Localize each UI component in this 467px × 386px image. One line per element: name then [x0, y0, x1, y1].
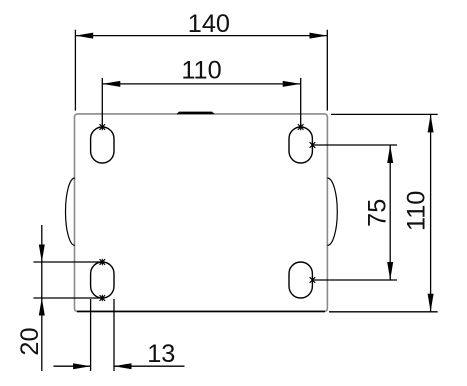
star marker bottom-left hole top: [100, 259, 106, 265]
dimension 110 top arrow right: [283, 81, 301, 87]
star marker top-right hole top: [298, 124, 304, 130]
dimension 13 arrow left (outside, pointing right): [73, 363, 91, 369]
dimension 110 top extension line left: [101, 78, 103, 127]
dimension 140 arrow left: [75, 33, 93, 39]
dimension 110 top line: [102, 83, 300, 85]
slot hole bottom-left: [91, 262, 114, 298]
dimension 13 line right tail: [114, 365, 185, 367]
dimension 20 arrow top (outside, pointing down): [39, 245, 45, 263]
dimension 13 extension line right: [113, 299, 115, 371]
svg-text:110: 110: [402, 191, 430, 231]
dimension 110 top arrow left: [102, 81, 120, 87]
dimension 13 arrow right (outside, pointing left): [114, 363, 132, 369]
star marker top-left hole: [100, 124, 106, 130]
star marker top-right hole side: [310, 142, 316, 148]
dimension 110 right extension line bottom: [329, 311, 438, 313]
dimension 13 line left tail: [54, 365, 91, 367]
dimension 110 right arrow top: [428, 114, 434, 132]
svg-text:20: 20: [16, 327, 44, 355]
star marker bottom-left hole bottom: [100, 295, 106, 301]
dimension 75 arrow top: [387, 145, 393, 163]
slot hole top-right: [289, 127, 312, 163]
dimension 75 line: [389, 145, 391, 280]
svg-text:13: 13: [147, 340, 175, 368]
dimension 110 top extension line right: [300, 78, 302, 127]
star marker bottom-right hole side: [310, 277, 316, 283]
dimension 110 right arrow bottom: [428, 294, 434, 312]
slot hole top-left: [91, 127, 114, 163]
dimension 13 extension line left: [90, 299, 92, 371]
dimension 75 arrow bottom: [387, 262, 393, 280]
dimension 20 extension line top: [33, 261, 102, 263]
dimension 110 right line: [430, 114, 432, 311]
plate bottom edge (black): [77, 310, 325, 312]
dimension 75 extension line bottom: [314, 279, 398, 281]
svg-text:110: 110: [181, 56, 221, 84]
dimension 140 extension line right: [326, 30, 328, 111]
dimension 75 extension line top: [314, 144, 398, 146]
plate outline (top plate, grey): [75, 114, 328, 312]
dimension 140 line: [75, 35, 327, 37]
slot hole bottom-right: [289, 262, 312, 298]
dimension 20 line: [41, 225, 43, 371]
wheel arc right: [327, 178, 337, 245]
dimension 140 extension line left: [74, 30, 76, 111]
svg-text:140: 140: [188, 10, 230, 38]
dimension 110 right extension line top: [331, 113, 438, 115]
dimension 140 arrow right: [310, 33, 328, 39]
dimension 20 extension line bottom: [33, 297, 102, 299]
dimension 20 arrow bottom (outside, pointing up): [39, 298, 45, 316]
wheel arc left: [66, 178, 75, 245]
wheel tread segment at top edge: [176, 112, 214, 115]
svg-text:75: 75: [363, 199, 391, 227]
